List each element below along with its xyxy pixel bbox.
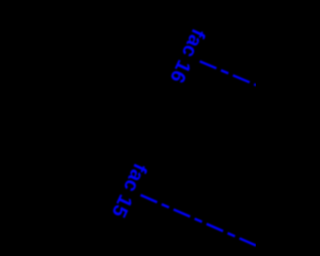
facility line fac 16: [200, 61, 258, 86]
facility line fac 15: [141, 195, 258, 246]
